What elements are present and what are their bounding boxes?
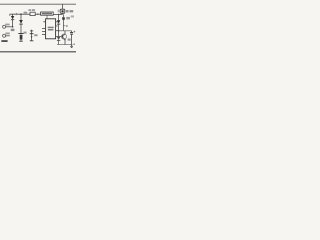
op-amp U1 IC box [46,19,56,39]
pin wire from C2 [42,30,46,32]
plus mark C3 [74,31,76,33]
label J2 [5,33,9,35]
diode D1 (left, x12.6) [12,14,14,16]
pin stub right 3 [56,30,59,32]
node horizontal to C3 [59,30,72,32]
frame bottom line [0,51,76,53]
ground tick C2 [30,40,34,42]
capacitor C1 electrolytic [18,33,23,35]
relay K1 box [60,9,65,13]
resistor R1 box [41,12,54,15]
capacitor C3 [71,31,73,33]
node C junction [58,30,60,32]
ground symbol [71,45,73,47]
label mid right [66,17,70,20]
transistor Q1 [61,34,66,39]
pin stub right low (base wire) [56,36,63,38]
pin stub right 2 [56,25,58,27]
terminal J1 [3,25,6,28]
IC type label line1 [48,27,54,29]
bold voltage label [1,40,7,42]
node A junction [12,26,14,28]
wire from J2 [6,35,10,37]
label J1 [5,24,9,26]
capacitor C2 (x31.6) [30,30,33,32]
wire resistor to right vertical [53,13,62,15]
relay top lead to rail [62,4,64,9]
diode D4 [57,37,60,41]
value label inside resistor [42,13,52,15]
ground bus right [57,44,73,46]
ground tick C1 [19,40,23,42]
diode D3 [57,20,60,24]
plus sign near D1 [15,13,17,15]
pin stub right top [56,21,59,23]
value label right of C2 [34,34,37,36]
wire right vertical [58,14,59,15]
node B junction on main wire [20,13,22,15]
label above fuse [28,9,31,11]
diode D2 (x21) [20,14,22,20]
value label right of C1 [23,32,26,34]
relay bottom lead [62,13,64,14]
pin stub left top [43,21,45,23]
pin stub left low [42,34,46,36]
terminal J2 [3,34,6,37]
label under node A [11,29,15,31]
stub resistor to IC [46,15,48,18]
label near emitter [68,39,71,41]
wire main top y14 [10,13,31,15]
fuse F1 box [30,12,35,15]
frame top line [0,3,76,5]
IC type label line2 [48,29,54,31]
pin stub left mid [42,27,46,29]
relay label [58,10,60,13]
wire fuse to resistor [37,14,38,15]
label right of node B [24,12,28,14]
plus mark [66,25,68,27]
wire terminal1 to node A [6,26,13,28]
